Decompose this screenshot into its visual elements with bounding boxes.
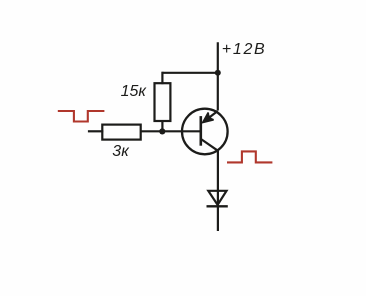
node junction dot on +12V rail bbox=[215, 70, 221, 76]
diode (cathode down) bbox=[207, 191, 228, 207]
node base junction dot bbox=[159, 128, 165, 134]
wire from resistor 3k to transistor base bbox=[141, 130, 201, 132]
wire +12V supply rail (top vertical) bbox=[217, 42, 219, 110]
resistor 3k (horizontal) bbox=[102, 125, 140, 140]
label 3к bbox=[112, 143, 130, 160]
label 15к bbox=[121, 83, 148, 100]
wire input lead into resistor 3k bbox=[88, 130, 103, 132]
resistor 15k (vertical) bbox=[155, 83, 171, 121]
transistor VT1 (PNP) bbox=[182, 109, 228, 155]
svg-text:15к: 15к bbox=[121, 83, 148, 100]
svg-text:+12В: +12В bbox=[222, 41, 267, 58]
svg-text:3к: 3к bbox=[112, 143, 130, 160]
wire from +12V rail to top of resistor 15k bbox=[162, 72, 218, 85]
input pulse waveform (negative pulse) bbox=[58, 111, 105, 122]
label +12В bbox=[222, 41, 267, 58]
output pulse waveform (positive pulse) bbox=[227, 151, 272, 162]
wire from bottom of resistor 15k to base node bbox=[161, 121, 163, 132]
wire collector down through diode bbox=[217, 151, 219, 232]
